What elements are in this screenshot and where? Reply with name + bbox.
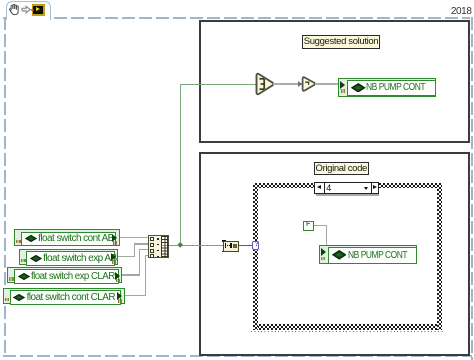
suggested solution label	[302, 35, 380, 49]
case structure border left	[253, 183, 258, 330]
wire: control 2 to build array	[118, 256, 135, 257]
dashed selection border right	[471, 17, 473, 360]
suggested solution frame	[199, 20, 471, 143]
wire: control 4 to build array	[125, 295, 146, 296]
wire: boolean between gates	[273, 83, 302, 84]
boolean control float switch exp CLAR	[7, 267, 122, 284]
wire: F constant horizontal	[314, 225, 328, 226]
step-into arrow icon	[21, 5, 32, 15]
boolean array to number converter	[222, 240, 227, 242]
boolean control float switch exp AB	[19, 249, 118, 265]
case structure border bottom	[253, 324, 442, 330]
not gate	[300, 75, 318, 93]
case selector tunnel	[252, 241, 259, 250]
case structure border top	[253, 183, 442, 188]
wire: array main horizontal build-array to converter	[169, 245, 224, 247]
dashed selection border bottom	[3, 355, 472, 357]
LabVIEW VI icon (yellow)	[32, 4, 45, 16]
case structure border right	[437, 183, 442, 330]
build array node	[148, 235, 170, 258]
case selector shadow	[316, 194, 379, 196]
case selector label	[314, 182, 379, 194]
boolean control float switch cont CLAR	[3, 288, 125, 304]
year label 2018	[448, 6, 472, 17]
wire: control 1 to build array	[120, 237, 150, 238]
case structure shadow dotted	[251, 331, 443, 332]
boolean indicator NB PUMP CONT (original)	[319, 245, 417, 264]
wire junction	[177, 242, 183, 248]
hand tool icon	[8, 3, 21, 16]
tool tab	[6, 1, 51, 20]
coercion arrow at not-gate input	[298, 81, 302, 87]
boolean control float switch cont AB	[14, 229, 120, 246]
dashed selection border top	[3, 17, 470, 19]
wire: numeric to case selector tunnel	[239, 245, 253, 247]
original code frame	[199, 152, 471, 357]
original code label	[314, 162, 370, 175]
boolean indicator NB PUMP CONT (suggested)	[338, 78, 436, 97]
wire: control 3 to build array	[122, 274, 140, 275]
wire: array top horizontal to Or-array-elements	[180, 84, 258, 86]
wire: boolean to indicator	[315, 83, 339, 84]
wire: F constant vertical	[326, 225, 327, 246]
boolean constant F	[303, 221, 314, 231]
dashed selection border left	[4, 17, 6, 357]
wire: array riser vertical	[180, 84, 182, 246]
or-array-elements function	[253, 71, 279, 97]
